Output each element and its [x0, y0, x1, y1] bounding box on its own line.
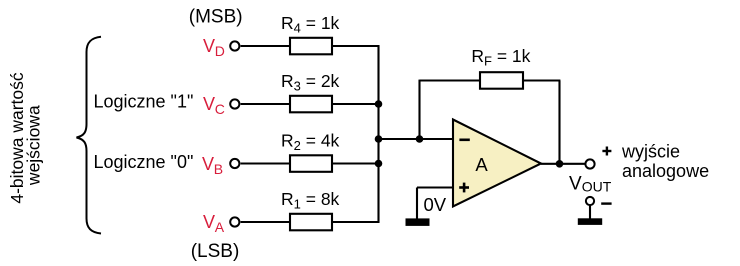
output terminal VOUT	[585, 159, 594, 168]
svg-text:analogowe: analogowe	[622, 161, 709, 181]
wire bus to op-amp inverting input	[379, 138, 454, 140]
svg-text:C: C	[215, 101, 225, 117]
wire summing bus vertical	[377, 45, 379, 223]
svg-text:wyjście: wyjście	[621, 142, 680, 162]
wire VB to R2	[241, 162, 290, 164]
wire op-amp output	[541, 163, 585, 165]
wire feedback top left	[420, 79, 481, 81]
junction node R2/bus	[375, 160, 383, 168]
label VB	[202, 154, 223, 177]
wire VA to R1	[241, 221, 290, 223]
svg-text:B: B	[214, 161, 223, 177]
svg-text:V: V	[203, 36, 215, 56]
svg-text:A: A	[215, 219, 225, 235]
resistor R4	[290, 38, 332, 55]
svg-text:R2 = 4k: R2 = 4k	[281, 130, 340, 153]
wire VC to R3	[241, 103, 290, 105]
svg-text:V: V	[203, 212, 215, 232]
input terminal VD	[230, 41, 239, 50]
label VA	[203, 212, 225, 235]
svg-text:R3 = 2k: R3 = 2k	[281, 71, 340, 94]
input terminal VC	[230, 99, 239, 108]
svg-text:D: D	[215, 43, 225, 59]
junction node feedback	[416, 135, 424, 143]
resistor R2	[290, 155, 332, 172]
ground output bar	[578, 218, 602, 225]
svg-text:R4 = 1k: R4 = 1k	[281, 13, 340, 36]
op-amp A	[453, 120, 541, 207]
wire op-amp plus input	[417, 186, 453, 188]
resistor RF	[480, 72, 523, 89]
svg-text:R1 = 8k: R1 = 8k	[281, 189, 340, 212]
svg-text:VOUT: VOUT	[569, 174, 612, 195]
svg-text:0V: 0V	[424, 194, 447, 215]
wire feedback left vertical	[418, 80, 420, 139]
svg-text:(LSB): (LSB)	[191, 241, 240, 262]
wire R2 to bus	[332, 162, 379, 164]
wire VD to R4	[241, 45, 290, 47]
resistor R1	[290, 214, 332, 231]
svg-text:V: V	[203, 94, 215, 114]
wire R1 to bus	[332, 221, 379, 223]
svg-text:V: V	[202, 154, 214, 174]
svg-text:(MSB): (MSB)	[189, 7, 243, 28]
wire R4 to bus	[332, 45, 379, 47]
svg-text:A: A	[475, 154, 488, 175]
wire 0V down	[416, 188, 418, 220]
input terminal VB	[230, 159, 239, 168]
label + (output polarity)	[602, 147, 611, 156]
ground 0V bar	[406, 218, 430, 226]
wire feedback top right	[523, 79, 560, 81]
resistor R3	[290, 96, 332, 113]
op-amp minus sign	[459, 139, 469, 142]
junction node output	[556, 160, 564, 168]
junction node summing tap	[375, 135, 383, 143]
label VC	[203, 94, 225, 117]
wire feedback right vertical	[558, 81, 560, 164]
brace (input group)	[77, 37, 102, 234]
input terminal VA	[230, 217, 239, 226]
junction node R3/bus	[375, 100, 383, 108]
op-amp plus sign	[459, 183, 469, 193]
label - (output polarity)	[601, 202, 611, 204]
svg-text:RF = 1k: RF = 1k	[471, 46, 530, 69]
terminal lower (minus)	[586, 197, 594, 205]
svg-text:Logiczne "0": Logiczne "0"	[94, 152, 194, 172]
wire lower terminal to ground	[589, 205, 591, 219]
label VD	[203, 36, 225, 59]
wire R3 to bus	[332, 103, 379, 105]
svg-text:Logiczne "1": Logiczne "1"	[94, 91, 194, 111]
svg-text:wejściowa: wejściowa	[24, 105, 44, 186]
